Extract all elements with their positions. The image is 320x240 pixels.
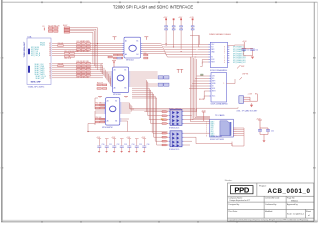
- resistor R10 inline band A: [58, 43, 64, 46]
- svg-text:E7: E7: [49, 43, 51, 45]
- warning arrow marker: [161, 118, 165, 120]
- svg-text:IP4856CX25: IP4856CX25: [169, 149, 179, 151]
- svg-text:+3.3V: +3.3V: [141, 137, 145, 139]
- resistor group R4-R7: [63, 25, 70, 33]
- svg-text:VSS: VSS: [210, 132, 213, 134]
- svg-text:R22 33R R23 33R: R22 33R R23 33R: [77, 51, 90, 53]
- svg-text:R44 10K: R44 10K: [97, 83, 103, 85]
- buffer U6: [104, 98, 121, 125]
- svg-text:T2080_SPI_SDHC: T2080_SPI_SDHC: [28, 86, 45, 88]
- svg-text:C5: C5: [49, 73, 51, 75]
- svg-text:B1: B1: [124, 70, 126, 72]
- pull-up column PU4: [190, 17, 195, 57]
- J1 pin stubs right: [233, 128, 236, 135]
- pull-up column PU3: [178, 17, 183, 49]
- svg-text:Project:: Project:: [259, 185, 267, 188]
- svg-text:IRQ04: IRQ04: [40, 44, 45, 46]
- wire bus VR vertical bundle: [130, 80, 162, 145]
- U2 right net names: [233, 46, 247, 64]
- svg-text:Approved by:: Approved by:: [287, 203, 299, 206]
- svg-text:R50 10K: R50 10K: [96, 117, 102, 119]
- wire long bus LB1: [88, 124, 168, 132]
- net label boxes row2: [158, 83, 169, 86]
- buffer U4: [122, 37, 142, 58]
- card detect circuit SW1: [239, 94, 258, 108]
- resistor cluster bank B: [77, 61, 91, 79]
- ESD array D2: [168, 131, 183, 147]
- svg-text:B7: B7: [49, 63, 51, 65]
- svg-text:R9: R9: [255, 94, 257, 96]
- svg-text:E5: E5: [49, 51, 51, 53]
- svg-text:MOLEX 5027740891: MOLEX 5027740891: [210, 139, 224, 141]
- svg-text:B6: B6: [49, 67, 51, 69]
- svg-text:F5: F5: [49, 53, 51, 55]
- svg-text:SDHC_GRP: SDHC_GRP: [31, 82, 42, 84]
- svg-text:S25FL128SAGMFI00: S25FL128SAGMFI00: [210, 69, 227, 72]
- svg-text:R14 4.7K: R14 4.7K: [64, 58, 72, 60]
- flash U3: [209, 73, 226, 103]
- svg-text:C50: C50: [247, 50, 250, 52]
- svg-text:SDHC_WP: SDHC_WP: [36, 78, 45, 80]
- svg-text:R4-R7: R4-R7: [63, 25, 68, 27]
- U1 pin names group1: [31, 42, 45, 56]
- svg-text:Designed by:: Designed by:: [229, 204, 241, 206]
- wire bus H1 into U4: [103, 44, 122, 56]
- U1 pin numbers band B: [49, 63, 51, 79]
- svg-text:NTS0106: NTS0106: [113, 94, 121, 96]
- svg-text:R32 33R R33 33R: R32 33R R33 33R: [77, 77, 90, 79]
- company logo PPD: [231, 186, 254, 195]
- resistor DNP R60: [237, 65, 244, 69]
- resistor array RN1: [64, 51, 79, 60]
- svg-text:C14: C14: [132, 144, 135, 146]
- svg-text:DNP: DNP: [241, 66, 244, 68]
- power stub U4 right: [144, 37, 148, 40]
- svg-text:R10 0R: R10 0R: [58, 43, 64, 45]
- svg-text:Member:: Member:: [225, 179, 233, 182]
- svg-text:C6: C6: [49, 69, 51, 71]
- power node U5 top: [112, 61, 116, 67]
- wire U6 right fanout: [121, 103, 196, 132]
- wire U6 left stubs: [95, 98, 104, 125]
- svg-text:Modified:: Modified:: [265, 211, 273, 213]
- gnd loop wiring: [196, 128, 244, 146]
- title block grid: [228, 183, 314, 221]
- wire bus from R4-R7 to vertical bundle: [70, 28, 98, 70]
- power stub U6 top: [98, 97, 102, 98]
- svg-text:CS#: CS#: [211, 44, 214, 46]
- flash U2: [209, 42, 230, 67]
- net tie mark: [201, 74, 204, 76]
- wire band B rows: [52, 64, 103, 78]
- svg-text:R30 33R R31 33R: R30 33R R31 33R: [77, 61, 90, 63]
- svg-text:B4: B4: [49, 75, 51, 77]
- resistor pair U6 left lower: [96, 117, 105, 123]
- wire band A rows: [52, 44, 103, 56]
- decoupling capacitor row C10-C16: [96, 137, 149, 153]
- svg-text:R8 4.7K: R8 4.7K: [199, 99, 204, 101]
- svg-text:B6: B6: [124, 88, 126, 90]
- TF card socket J1: [210, 119, 234, 138]
- connector U1 T2080 block: [27, 38, 51, 85]
- resistor array RN2 top: [48, 25, 59, 32]
- power stub pair mid: [177, 69, 184, 73]
- svg-text:R1: R1: [43, 26, 45, 28]
- U1 left group label SPI: [28, 49, 30, 73]
- capacitor group C5 near TF: [256, 119, 274, 143]
- svg-text:RST#: RST#: [212, 91, 216, 93]
- svg-text:Cell (COE) Used:: Cell (COE) Used:: [265, 198, 280, 200]
- U1 pin numbers band A: [49, 43, 51, 57]
- svg-text:+1.8V: +1.8V: [126, 137, 130, 139]
- wire flash U3 left stubs: [189, 76, 209, 99]
- svg-text:E6: E6: [49, 47, 51, 49]
- svg-text:C13: C13: [124, 144, 127, 146]
- svg-text:ACB_0001_0: ACB_0001_0: [268, 188, 311, 195]
- svg-text:+3.3V: +3.3V: [111, 137, 115, 139]
- svg-text:Copyright (C) 2013-2014 Unique: Copyright (C) 2013-2014 Unique Expertise…: [229, 219, 309, 222]
- net pennant labels left of D2: [162, 132, 168, 145]
- svg-text:B1: B1: [136, 41, 138, 43]
- svg-text:WP#: WP#: [211, 49, 214, 51]
- svg-text:F6: F6: [49, 49, 51, 51]
- resistor pair U4 right: [144, 53, 148, 59]
- svg-text:S25FL128SAGMFI00: S25FL128SAGMFI00: [211, 103, 228, 106]
- power label TF +3.3V: [201, 111, 206, 121]
- net label boxes row1: [158, 76, 169, 79]
- resistor R1 top stub: [43, 26, 45, 30]
- J1 pin numbers: [206, 121, 207, 137]
- svg-text:C15: C15: [139, 144, 142, 146]
- svg-text:C11: C11: [109, 144, 112, 146]
- resistor pair U4 left: [114, 54, 123, 59]
- svg-text:E4: E4: [49, 55, 51, 57]
- U1 pin names group2: [35, 64, 47, 80]
- buffer U5: [111, 67, 130, 93]
- svg-text:F7: F7: [49, 45, 51, 47]
- resistor R11 inline band B: [58, 64, 64, 67]
- wire bus H2 staircase into U5: [101, 64, 111, 86]
- svg-text:Print Date:: Print Date:: [229, 210, 238, 213]
- resistor cluster bank A: [77, 41, 91, 53]
- pull-up column PU2: [172, 18, 175, 47]
- power stub U6 topright: [124, 97, 128, 98]
- titleblock row2 labels: [229, 198, 312, 217]
- svg-text:XXX - TF CARD SOCKET: XXX - TF CARD SOCKET: [237, 110, 259, 113]
- svg-text:Page No:: Page No:: [287, 198, 295, 200]
- svg-text:T2080 BGA SKT: T2080 BGA SKT: [23, 41, 26, 57]
- svg-text:Confirmed by:: Confirmed by:: [265, 203, 277, 206]
- svg-text:B6: B6: [115, 120, 117, 122]
- svg-text:+1.8V +1.8V: +1.8V +1.8V: [80, 41, 91, 43]
- svg-text:Unique Expertise for ICT: Unique Expertise for ICT: [230, 199, 252, 202]
- svg-text:R40: R40: [144, 53, 147, 55]
- wire bus VF vertical bundle: [184, 57, 238, 145]
- U3 right wire: [227, 79, 236, 84]
- wire flash U2 left stubs: [190, 36, 209, 67]
- svg-text:C4: C4: [49, 77, 51, 79]
- ESD array D1: [168, 109, 183, 125]
- svg-text:16MB SERIAL FLASH: 16MB SERIAL FLASH: [209, 33, 231, 36]
- resistor cluster U5 lower-left: [97, 83, 107, 90]
- svg-text:Sheet: Sheet: [306, 210, 311, 213]
- svg-text:B4: B4: [136, 54, 138, 56]
- svg-text:B5: B5: [49, 71, 51, 73]
- resistor DNP R8: [239, 74, 248, 80]
- svg-text:U1A: U1A: [28, 36, 33, 39]
- svg-text:+3.3V: +3.3V: [96, 137, 100, 139]
- svg-text:CD WP SH1 SH2: CD WP SH1 SH2: [210, 136, 222, 138]
- svg-text:C7: C7: [49, 65, 51, 67]
- svg-text:RST#: RST#: [211, 62, 215, 64]
- svg-text:C16: C16: [147, 144, 150, 146]
- svg-text:PPD: PPD: [234, 186, 249, 195]
- svg-text:WP#: WP#: [212, 81, 215, 83]
- svg-text:SH0001: SH0001: [291, 200, 298, 202]
- pull-up column PU1: [163, 17, 168, 46]
- resistor stub U5 topleft: [108, 56, 121, 59]
- svg-text:CS#: CS#: [212, 76, 215, 78]
- svg-text:TF CARD: TF CARD: [215, 114, 225, 117]
- wire bus U4 to flash U2: [142, 44, 199, 58]
- svg-text:DNP R8: DNP R8: [242, 74, 248, 76]
- svg-text:C51: C51: [255, 50, 258, 52]
- junction dots: [87, 43, 181, 132]
- svg-text:C10: C10: [102, 144, 105, 146]
- svg-text:T2080 SPI FLASH and SDHC INTER: T2080 SPI FLASH and SDHC INTERFACE: [113, 5, 193, 10]
- svg-text:NTS0106PW: NTS0106PW: [102, 127, 113, 129]
- svg-text:B1: B1: [115, 100, 117, 102]
- capacitor group C50 C51 near U2: [242, 41, 259, 59]
- svg-text:C52: C52: [271, 130, 274, 132]
- wire bundle U5 right to net labels: [130, 72, 157, 86]
- svg-text:SPI_CS1_B: SPI_CS1_B: [31, 55, 41, 57]
- svg-text:R11 0R: R11 0R: [58, 64, 64, 66]
- wire U2 vcc to cap: [228, 45, 245, 48]
- svg-text:R2 4.7K R3 4.7K: R2 4.7K R3 4.7K: [48, 25, 59, 27]
- svg-text:C12: C12: [117, 144, 120, 146]
- svg-text:IP4856CX25: IP4856CX25: [169, 127, 179, 129]
- power stub U4 left: [113, 37, 117, 40]
- svg-text:NTS0104: NTS0104: [126, 59, 134, 61]
- resistor pair U6 left upper: [96, 103, 105, 109]
- net pennant labels left of D1: [162, 111, 168, 124]
- svg-text:Scale: 1.0 pr[Ver]:+1: Scale: 1.0 pr[Ver]:+1: [287, 213, 304, 216]
